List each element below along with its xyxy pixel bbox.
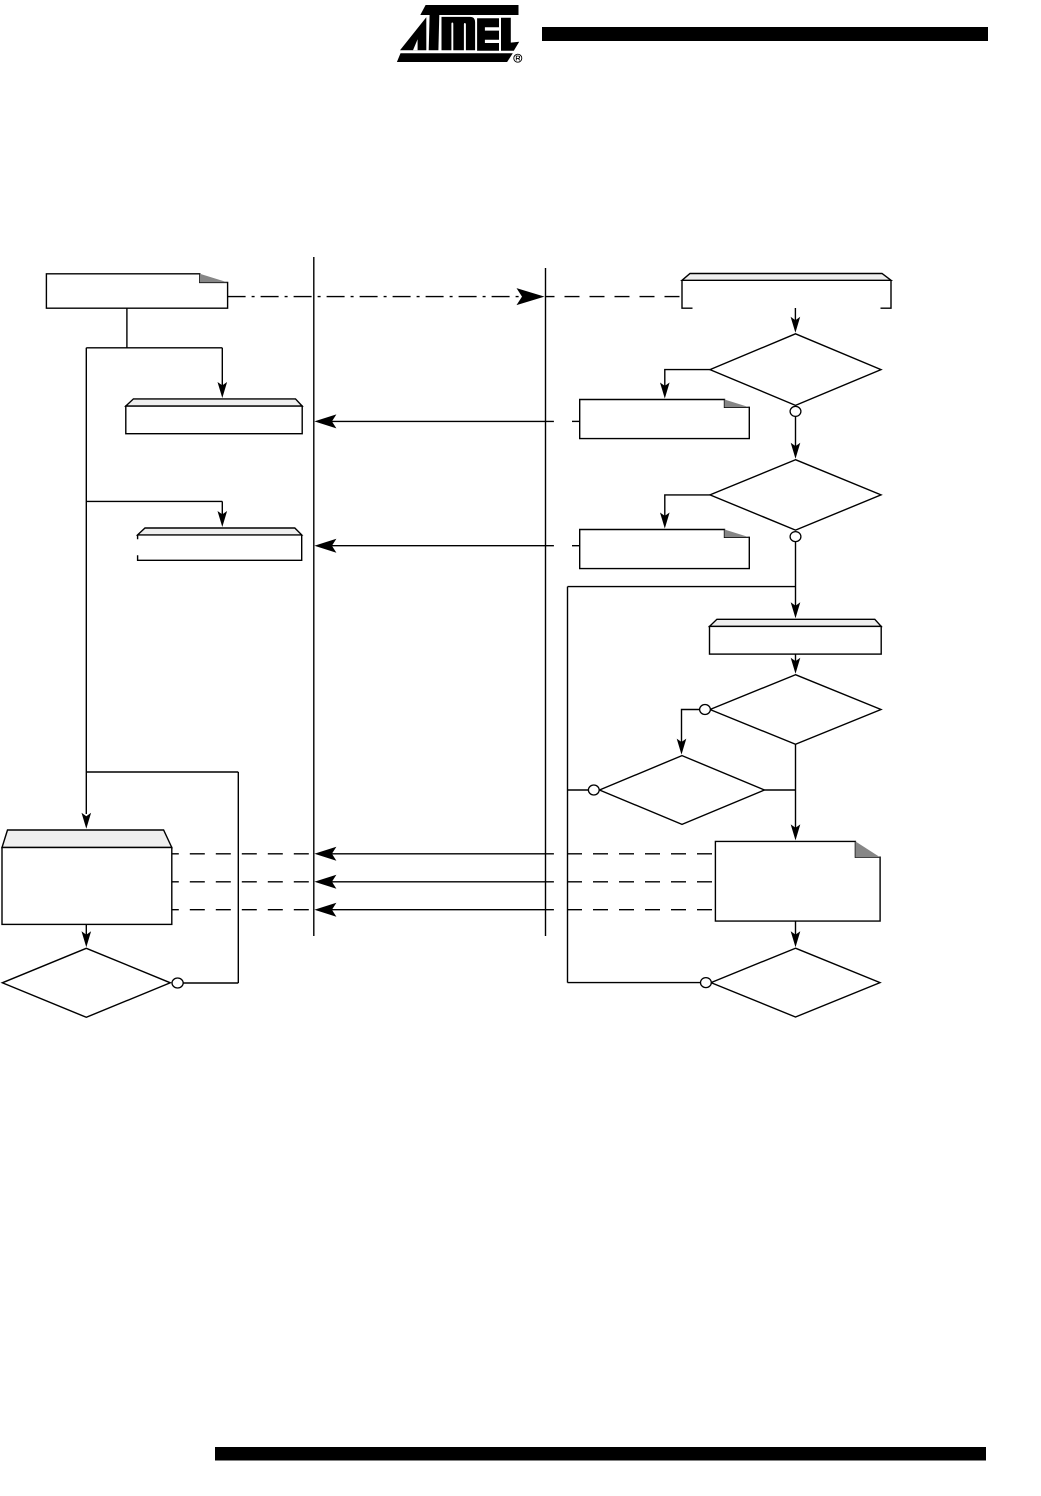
left loop vertical wire [237, 772, 239, 983]
down arrowhead into box L2 [218, 511, 228, 527]
diamond D3 [710, 675, 881, 745]
diamond D1 [710, 334, 881, 406]
wire big shape S3 to D6 [85, 924, 87, 935]
wire C4 to loop [568, 789, 589, 791]
wire bracket to diamond D1 [794, 308, 796, 321]
wire branch1 horizontal [86, 347, 222, 349]
big card fold [855, 841, 880, 857]
lifeline 2 [545, 268, 547, 936]
bottom black bar [215, 1447, 986, 1461]
big right arrowhead dash-dot [517, 288, 545, 305]
wire C2 to bar S2 [795, 542, 797, 606]
circle C3 [700, 705, 711, 715]
down arrowhead into card R1 [660, 383, 670, 399]
wire C5 to loop (bottom) [568, 982, 701, 984]
left arrowhead m4 [314, 875, 336, 889]
loop top wire [568, 586, 796, 588]
wire D4 right vertex to main vertical [765, 789, 796, 791]
wire C3 to D4 [682, 710, 700, 743]
Atmel logo [397, 5, 522, 62]
wire branch2 down to box L2 [221, 501, 223, 514]
down arrowhead into big card [791, 824, 801, 840]
loop left vertical wire [567, 587, 569, 983]
wire big card to D5 [795, 921, 797, 935]
down arrowhead into box L1 [218, 382, 228, 398]
card R2 fold [725, 530, 750, 538]
message m4 dashed right [567, 881, 715, 883]
dashed wire lifeline2 to bracket [546, 296, 682, 298]
down arrowhead into D6 [82, 931, 92, 947]
diamond D4 [600, 756, 765, 825]
message m2 card stub [572, 545, 580, 547]
big shape S3 body [2, 848, 172, 925]
diamond D5 [711, 948, 880, 1017]
message m3 dashed right [567, 853, 715, 855]
dash-dot message wire [228, 296, 521, 298]
message m4 solid segment [332, 881, 554, 883]
wire D2 left bypass to card R2 [665, 495, 710, 516]
card R1 [580, 400, 750, 439]
top black bar [542, 27, 988, 41]
wire C1 to D2 [795, 417, 797, 447]
message m1 card stub [572, 420, 580, 422]
wire bar S2 to D3 [795, 654, 797, 661]
diamond D6 [2, 948, 170, 1017]
left arrowhead m2 [314, 539, 336, 553]
wire branch1 down to box L1 [221, 348, 223, 386]
left arrowhead m5 [314, 903, 336, 917]
card L1 fold [200, 274, 228, 283]
circle C6 [172, 978, 183, 988]
left arrowhead m1 [314, 414, 336, 428]
wire card L1 bottom [126, 308, 128, 348]
down arrowhead into D5 [791, 931, 801, 947]
bracket shape S1 strip [682, 274, 891, 281]
message m5 dashed right [567, 909, 715, 911]
down arrowhead into D3 [791, 658, 801, 674]
box L1 strip [126, 399, 302, 406]
circle C5 [701, 978, 712, 988]
bracket S1 right bracket [881, 280, 892, 308]
big card [715, 841, 880, 921]
left loop horizontal wire [86, 771, 238, 773]
down arrowhead into bar S2 [791, 602, 801, 618]
wire D3 bottom to big card [795, 744, 797, 828]
down arrowhead into D1 [791, 317, 801, 333]
down arrowhead into D4 [677, 739, 687, 755]
down arrowhead into big shape S3 [82, 813, 92, 829]
message m4 dashed left [172, 881, 311, 883]
message m3 solid segment [332, 853, 554, 855]
bracket S1 left bracket [682, 280, 693, 308]
left arrowhead m3 [314, 847, 336, 861]
message m2 solid segment [332, 545, 554, 547]
circle C1 [790, 406, 801, 416]
wire branch2 horizontal [86, 500, 222, 502]
wire left vertical [85, 348, 87, 814]
wire D1 left bypass to card R1 [665, 370, 710, 386]
box L2 strip [138, 528, 302, 535]
down arrowhead into card R2 [660, 513, 670, 529]
box L1 body [126, 406, 302, 434]
box L2 body open left [138, 535, 302, 560]
circle C4 [588, 785, 599, 795]
diamond D2 [710, 460, 881, 530]
bar S2 strip [710, 619, 882, 626]
card R1 fold [725, 400, 750, 408]
left loop bottom wire [183, 982, 238, 984]
message m5 solid segment [332, 909, 554, 911]
message m3 dashed left [172, 853, 311, 855]
message m5 dashed left [172, 909, 311, 911]
card R2 [580, 530, 750, 569]
message m1 solid segment [332, 420, 554, 422]
bar S2 body [710, 626, 882, 654]
card L1 [46, 274, 227, 308]
lifeline 1 [313, 257, 315, 936]
down arrowhead into D2 [791, 443, 801, 459]
circle C2 [790, 532, 801, 542]
big shape S3 strip [2, 830, 172, 848]
